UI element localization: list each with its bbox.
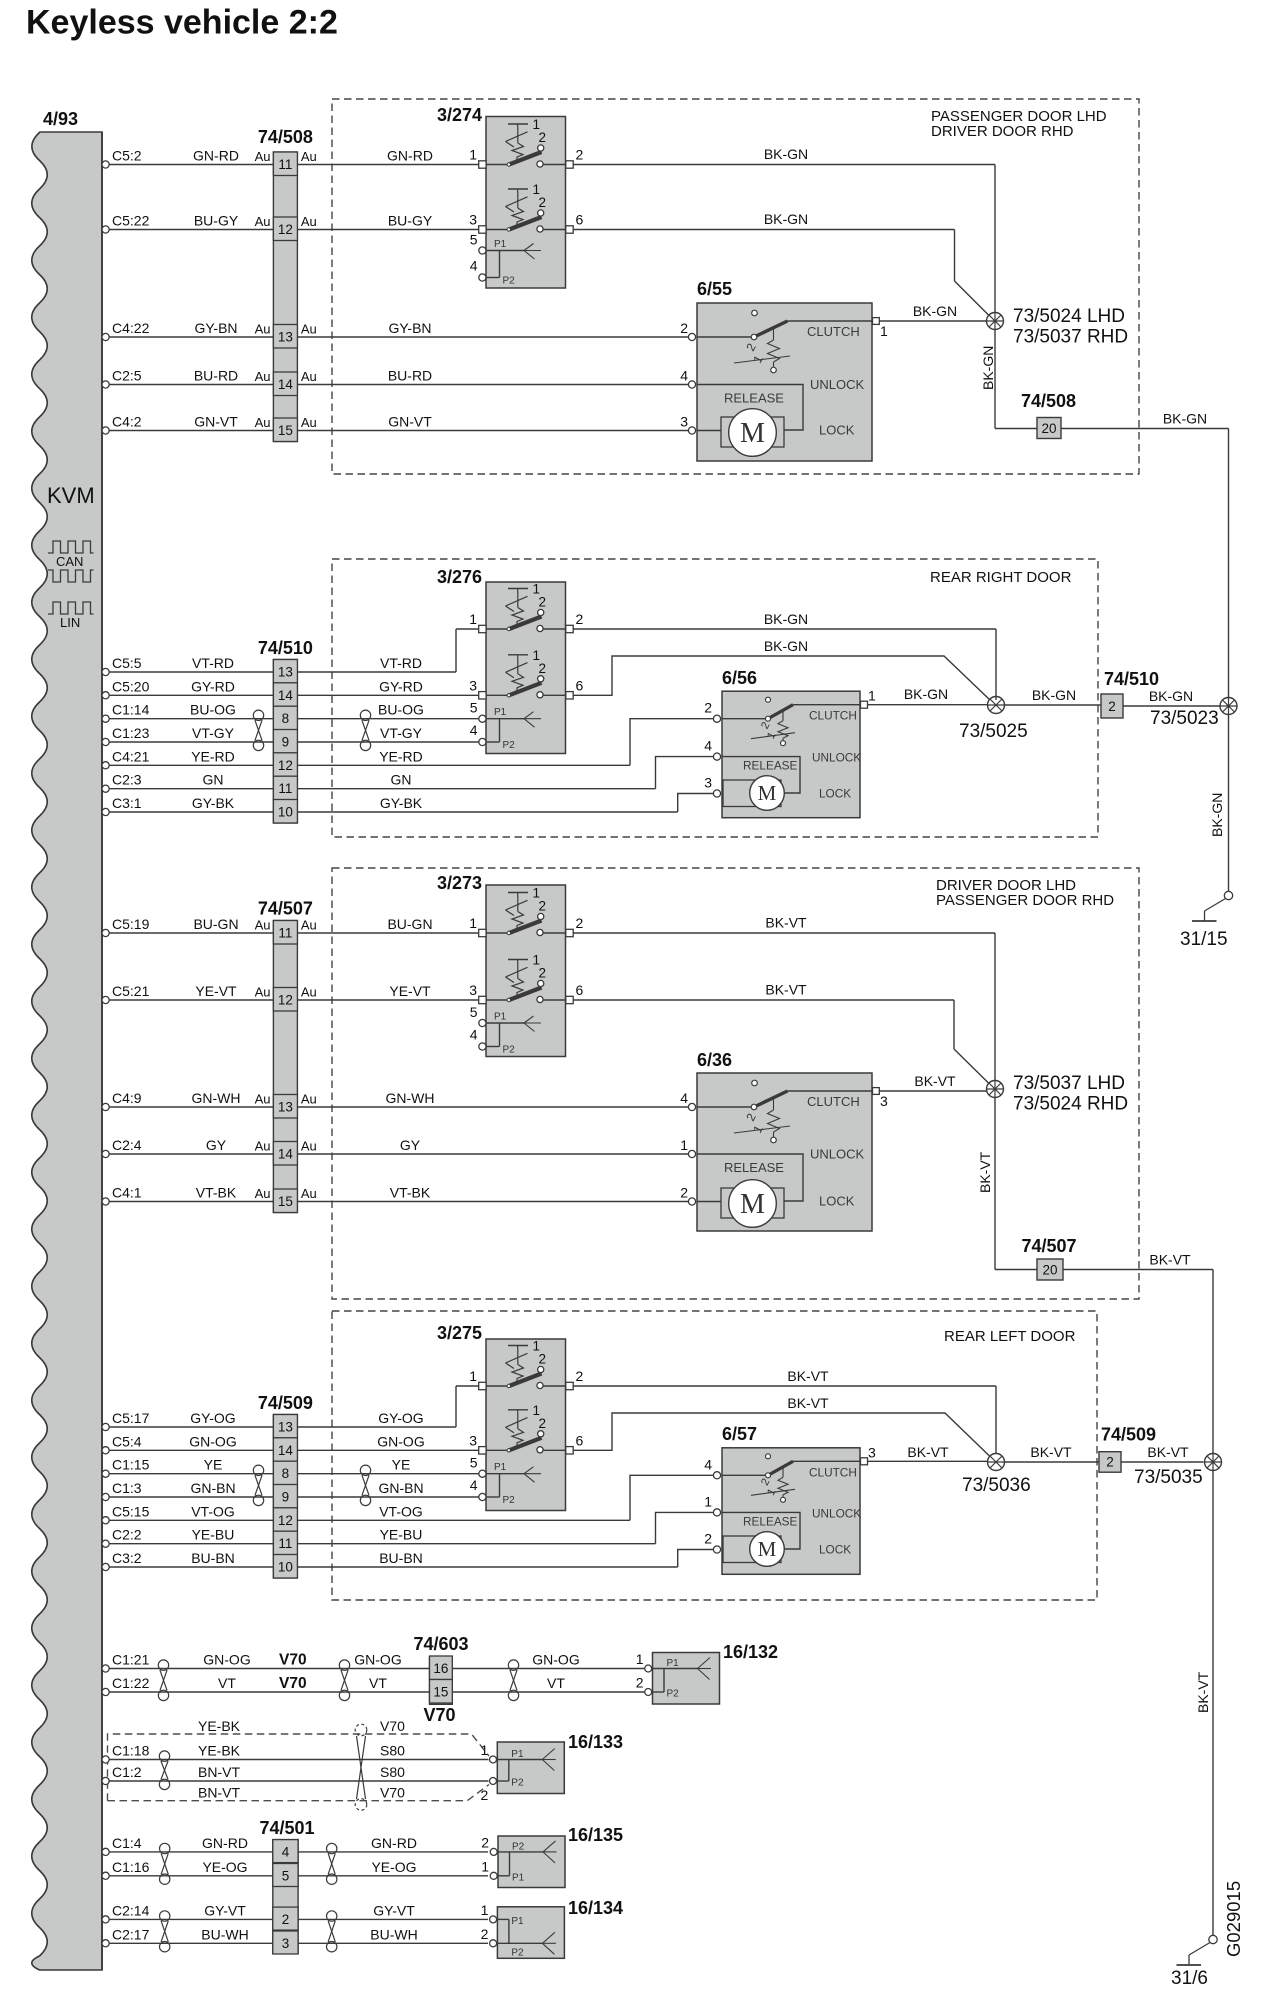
svg-text:UNLOCK: UNLOCK <box>810 377 865 392</box>
svg-text:1: 1 <box>469 915 477 931</box>
svg-text:M: M <box>758 781 777 805</box>
svg-text:GY-BN: GY-BN <box>194 320 237 336</box>
svg-text:2: 2 <box>539 195 547 210</box>
svg-text:15: 15 <box>433 1685 448 1700</box>
svg-text:2: 2 <box>539 595 547 610</box>
svg-text:BK-VT: BK-VT <box>765 982 807 998</box>
svg-text:BK-GN: BK-GN <box>764 638 808 654</box>
svg-text:BU-GY: BU-GY <box>194 213 239 229</box>
svg-text:VT-OG: VT-OG <box>379 1503 423 1519</box>
svg-text:Au: Au <box>255 214 271 229</box>
svg-text:13: 13 <box>278 1100 293 1115</box>
svg-text:74/509: 74/509 <box>1101 1425 1156 1445</box>
svg-text:2: 2 <box>481 1926 489 1942</box>
svg-text:BK-GN: BK-GN <box>1163 411 1207 427</box>
svg-text:YE-VT: YE-VT <box>195 983 237 999</box>
svg-text:C4:9: C4:9 <box>112 1090 142 1106</box>
svg-text:4: 4 <box>704 738 712 754</box>
svg-text:31/15: 31/15 <box>1180 929 1228 950</box>
svg-text:YE: YE <box>204 1457 223 1473</box>
svg-text:6/57: 6/57 <box>722 1424 757 1444</box>
svg-text:G029015: G029015 <box>1223 1881 1244 1957</box>
svg-text:V70: V70 <box>279 1652 307 1669</box>
svg-text:P1: P1 <box>667 1658 680 1669</box>
svg-text:6/56: 6/56 <box>722 668 757 688</box>
svg-text:GY: GY <box>400 1137 421 1153</box>
svg-text:GN-VT: GN-VT <box>194 414 238 430</box>
svg-text:P2: P2 <box>511 1948 524 1959</box>
svg-text:S80: S80 <box>380 1743 405 1759</box>
svg-text:3/273: 3/273 <box>437 873 482 893</box>
svg-text:C3:2: C3:2 <box>112 1550 142 1566</box>
svg-text:VT: VT <box>218 1675 236 1691</box>
svg-text:P2: P2 <box>503 276 516 287</box>
svg-text:5: 5 <box>470 700 478 716</box>
svg-text:GN-BN: GN-BN <box>378 1480 423 1496</box>
svg-text:5: 5 <box>470 1455 478 1471</box>
svg-text:YE: YE <box>392 1457 411 1473</box>
svg-text:3: 3 <box>282 1936 290 1951</box>
svg-text:C1:16: C1:16 <box>112 1859 150 1875</box>
svg-text:2: 2 <box>1106 1455 1114 1470</box>
svg-text:CLUTCH: CLUTCH <box>807 324 860 339</box>
svg-text:4: 4 <box>470 1027 478 1043</box>
svg-text:CLUTCH: CLUTCH <box>809 1465 857 1479</box>
svg-text:GY-VT: GY-VT <box>204 1902 246 1918</box>
svg-text:C5:4: C5:4 <box>112 1433 142 1449</box>
svg-text:M: M <box>758 1537 777 1561</box>
svg-text:C4:22: C4:22 <box>112 320 150 336</box>
svg-text:CLUTCH: CLUTCH <box>809 709 857 723</box>
svg-text:3: 3 <box>469 212 477 228</box>
svg-text:14: 14 <box>278 1443 294 1458</box>
svg-text:GY-OG: GY-OG <box>378 1410 423 1426</box>
svg-text:Au: Au <box>301 1139 317 1154</box>
svg-text:GY-BK: GY-BK <box>380 795 423 811</box>
svg-text:BK-GN: BK-GN <box>1032 687 1076 703</box>
svg-text:Keyless vehicle 2:2: Keyless vehicle 2:2 <box>26 4 338 42</box>
svg-text:73/5037 RHD: 73/5037 RHD <box>1013 327 1128 348</box>
svg-text:4: 4 <box>470 1477 478 1493</box>
svg-text:VT: VT <box>547 1675 565 1691</box>
svg-text:GN-WH: GN-WH <box>192 1090 241 1106</box>
svg-text:C1:14: C1:14 <box>112 702 150 718</box>
svg-text:V70: V70 <box>423 1705 455 1725</box>
svg-text:YE-OG: YE-OG <box>371 1859 416 1875</box>
svg-text:C1:22: C1:22 <box>112 1675 150 1691</box>
svg-text:LOCK: LOCK <box>819 423 855 438</box>
svg-text:YE-BK: YE-BK <box>198 1718 241 1734</box>
svg-text:BU-BN: BU-BN <box>191 1550 235 1566</box>
svg-text:M: M <box>740 418 765 449</box>
svg-text:C1:21: C1:21 <box>112 1652 150 1668</box>
svg-text:Au: Au <box>255 322 271 337</box>
svg-text:2: 2 <box>539 1352 547 1367</box>
svg-text:BU-WH: BU-WH <box>370 1926 417 1942</box>
svg-text:2: 2 <box>680 320 688 336</box>
svg-text:1: 1 <box>469 1368 477 1384</box>
svg-text:11: 11 <box>278 781 292 796</box>
svg-text:GY: GY <box>206 1137 227 1153</box>
svg-text:2: 2 <box>704 1531 712 1547</box>
svg-text:1: 1 <box>868 688 876 704</box>
svg-text:V70: V70 <box>279 1675 307 1692</box>
svg-text:4: 4 <box>680 1090 688 1106</box>
svg-text:VT-GY: VT-GY <box>380 725 423 741</box>
svg-text:16/135: 16/135 <box>568 1825 623 1845</box>
svg-text:VT-BK: VT-BK <box>390 1185 431 1201</box>
svg-text:LOCK: LOCK <box>819 1543 851 1557</box>
svg-text:BK-VT: BK-VT <box>914 1073 956 1089</box>
svg-text:11: 11 <box>278 1536 292 1551</box>
svg-text:Au: Au <box>255 1186 271 1201</box>
svg-text:11: 11 <box>278 926 292 941</box>
svg-text:16/134: 16/134 <box>568 1898 623 1918</box>
svg-text:74/603: 74/603 <box>413 1634 468 1654</box>
svg-text:C2:3: C2:3 <box>112 772 142 788</box>
svg-text:73/5025: 73/5025 <box>959 721 1028 742</box>
svg-text:12: 12 <box>278 1513 293 1528</box>
svg-text:C5:2: C5:2 <box>112 148 142 164</box>
svg-text:4: 4 <box>704 1456 712 1472</box>
svg-text:Au: Au <box>301 369 317 384</box>
svg-text:CAN: CAN <box>56 554 83 569</box>
svg-text:74/501: 74/501 <box>259 1818 314 1838</box>
svg-text:C1:15: C1:15 <box>112 1457 150 1473</box>
svg-text:2: 2 <box>1108 699 1116 714</box>
svg-text:4: 4 <box>282 1844 290 1859</box>
svg-text:16/133: 16/133 <box>568 1732 623 1752</box>
svg-text:BK-VT: BK-VT <box>1030 1444 1072 1460</box>
svg-text:RELEASE: RELEASE <box>724 1160 784 1175</box>
svg-text:5: 5 <box>470 1004 478 1020</box>
svg-text:YE-RD: YE-RD <box>191 748 235 764</box>
svg-text:YE-RD: YE-RD <box>379 748 423 764</box>
svg-text:GN-BN: GN-BN <box>190 1480 235 1496</box>
svg-text:6: 6 <box>576 677 584 693</box>
svg-text:LOCK: LOCK <box>819 787 851 801</box>
svg-text:2: 2 <box>539 966 547 981</box>
svg-text:3: 3 <box>680 414 688 430</box>
svg-text:16: 16 <box>433 1661 448 1676</box>
svg-text:2: 2 <box>539 661 547 676</box>
svg-text:BK-VT: BK-VT <box>765 915 807 931</box>
svg-text:14: 14 <box>278 688 294 703</box>
svg-text:13: 13 <box>278 665 293 680</box>
svg-text:Au: Au <box>255 985 271 1000</box>
svg-text:C5:5: C5:5 <box>112 655 142 671</box>
svg-text:Au: Au <box>255 369 271 384</box>
svg-text:BK-GN: BK-GN <box>1209 793 1225 837</box>
svg-text:3/275: 3/275 <box>437 1323 482 1343</box>
svg-text:P1: P1 <box>494 1462 507 1473</box>
svg-text:73/5037 LHD: 73/5037 LHD <box>1013 1073 1125 1094</box>
svg-text:1: 1 <box>469 147 477 163</box>
svg-text:3: 3 <box>469 1432 477 1448</box>
svg-text:2: 2 <box>539 899 547 914</box>
svg-text:BU-BN: BU-BN <box>379 1550 423 1566</box>
svg-text:GN-RD: GN-RD <box>387 148 433 164</box>
svg-text:3: 3 <box>469 677 477 693</box>
svg-text:C2:4: C2:4 <box>112 1137 142 1153</box>
svg-text:P2: P2 <box>667 1689 680 1700</box>
svg-text:4: 4 <box>680 368 688 384</box>
svg-text:C5:21: C5:21 <box>112 983 150 999</box>
svg-text:6: 6 <box>576 982 584 998</box>
svg-text:1: 1 <box>680 1137 688 1153</box>
svg-text:Au: Au <box>255 149 271 164</box>
svg-text:BK-VT: BK-VT <box>977 1151 993 1193</box>
svg-text:BK-GN: BK-GN <box>764 611 808 627</box>
svg-text:15: 15 <box>278 423 293 438</box>
svg-text:6/36: 6/36 <box>697 1050 732 1070</box>
svg-text:9: 9 <box>282 735 290 750</box>
svg-text:P1: P1 <box>512 1872 525 1883</box>
svg-text:20: 20 <box>1042 1263 1057 1278</box>
svg-text:GN: GN <box>203 772 224 788</box>
svg-text:LIN: LIN <box>60 615 80 630</box>
svg-text:BN-VT: BN-VT <box>198 1785 240 1801</box>
svg-text:BU-GN: BU-GN <box>193 916 238 932</box>
svg-text:Au: Au <box>301 1092 317 1107</box>
svg-text:VT-OG: VT-OG <box>191 1503 235 1519</box>
svg-text:C1:4: C1:4 <box>112 1835 142 1851</box>
svg-text:3/276: 3/276 <box>437 567 482 587</box>
svg-text:GN-RD: GN-RD <box>193 148 239 164</box>
svg-text:1: 1 <box>636 1651 644 1667</box>
svg-text:VT-BK: VT-BK <box>196 1185 237 1201</box>
svg-text:4: 4 <box>470 722 478 738</box>
svg-text:2: 2 <box>282 1912 290 1927</box>
svg-text:6: 6 <box>576 1432 584 1448</box>
svg-text:BK-GN: BK-GN <box>764 211 808 227</box>
svg-text:2: 2 <box>576 915 584 931</box>
svg-text:YE-OG: YE-OG <box>202 1859 247 1875</box>
svg-text:GN-OG: GN-OG <box>354 1652 401 1668</box>
svg-text:10: 10 <box>278 805 293 820</box>
svg-text:BN-VT: BN-VT <box>198 1764 240 1780</box>
svg-text:GN-RD: GN-RD <box>371 1835 417 1851</box>
svg-text:YE-BU: YE-BU <box>380 1527 423 1543</box>
svg-text:C2:14: C2:14 <box>112 1902 150 1918</box>
svg-text:10: 10 <box>278 1560 293 1575</box>
svg-text:C4:1: C4:1 <box>112 1185 142 1201</box>
svg-text:73/5036: 73/5036 <box>962 1475 1031 1496</box>
svg-text:2: 2 <box>539 1416 547 1431</box>
svg-text:LOCK: LOCK <box>819 1194 855 1209</box>
svg-text:15: 15 <box>278 1194 293 1209</box>
svg-text:P2: P2 <box>503 740 516 751</box>
svg-text:73/5035: 73/5035 <box>1134 1467 1203 1488</box>
svg-text:2: 2 <box>539 130 547 145</box>
svg-text:BU-GY: BU-GY <box>388 213 433 229</box>
svg-text:8: 8 <box>282 1466 290 1481</box>
svg-text:12: 12 <box>278 993 293 1008</box>
svg-text:RELEASE: RELEASE <box>724 391 784 406</box>
svg-text:BU-RD: BU-RD <box>388 368 432 384</box>
svg-text:2: 2 <box>704 700 712 716</box>
svg-text:2: 2 <box>576 611 584 627</box>
svg-text:REAR RIGHT DOOR: REAR RIGHT DOOR <box>930 569 1072 586</box>
svg-text:UNLOCK: UNLOCK <box>812 1506 861 1520</box>
svg-text:BU-WH: BU-WH <box>201 1926 248 1942</box>
svg-text:C5:20: C5:20 <box>112 678 150 694</box>
svg-text:C1:23: C1:23 <box>112 725 150 741</box>
svg-text:C4:2: C4:2 <box>112 414 142 430</box>
svg-text:2: 2 <box>576 147 584 163</box>
svg-text:P1: P1 <box>511 1916 524 1927</box>
svg-text:6/55: 6/55 <box>697 279 732 299</box>
svg-text:13: 13 <box>278 330 293 345</box>
svg-text:YE-BK: YE-BK <box>198 1743 241 1759</box>
svg-text:13: 13 <box>278 1420 293 1435</box>
svg-text:P1: P1 <box>494 1012 507 1023</box>
svg-text:74/508: 74/508 <box>1021 391 1076 411</box>
svg-text:GN-OG: GN-OG <box>189 1433 236 1449</box>
svg-text:BU-RD: BU-RD <box>194 368 238 384</box>
svg-text:BK-VT: BK-VT <box>787 1395 829 1411</box>
svg-text:Au: Au <box>255 415 271 430</box>
svg-text:Au: Au <box>255 1139 271 1154</box>
svg-text:GY-RD: GY-RD <box>379 678 423 694</box>
svg-text:Au: Au <box>255 1092 271 1107</box>
svg-text:P2: P2 <box>511 1778 524 1789</box>
svg-text:GN: GN <box>391 772 412 788</box>
svg-text:1: 1 <box>880 323 888 339</box>
svg-text:M: M <box>740 1189 765 1220</box>
svg-text:Au: Au <box>301 415 317 430</box>
svg-text:C1:2: C1:2 <box>112 1764 142 1780</box>
svg-text:Au: Au <box>301 985 317 1000</box>
svg-text:VT-GY: VT-GY <box>192 725 235 741</box>
svg-text:P2: P2 <box>503 1045 516 1056</box>
svg-text:P2: P2 <box>503 1495 516 1506</box>
svg-text:C4:21: C4:21 <box>112 748 150 764</box>
svg-text:VT-RD: VT-RD <box>380 655 422 671</box>
svg-text:DRIVER DOOR RHD: DRIVER DOOR RHD <box>931 123 1074 140</box>
svg-text:74/510: 74/510 <box>258 638 313 658</box>
svg-text:12: 12 <box>278 222 293 237</box>
svg-text:PASSENGER DOOR RHD: PASSENGER DOOR RHD <box>936 892 1114 909</box>
svg-text:BK-GN: BK-GN <box>980 346 996 390</box>
svg-text:VT-RD: VT-RD <box>192 655 234 671</box>
svg-text:C3:1: C3:1 <box>112 795 142 811</box>
svg-text:UNLOCK: UNLOCK <box>810 1147 865 1162</box>
svg-text:GY-RD: GY-RD <box>191 678 235 694</box>
svg-text:P1: P1 <box>494 707 507 718</box>
svg-text:GN-RD: GN-RD <box>202 1835 248 1851</box>
svg-text:BK-GN: BK-GN <box>913 303 957 319</box>
svg-text:C1:3: C1:3 <box>112 1480 142 1496</box>
svg-text:2: 2 <box>481 1834 489 1850</box>
svg-text:Au: Au <box>301 149 317 164</box>
svg-text:GN-WH: GN-WH <box>386 1090 435 1106</box>
svg-text:16/132: 16/132 <box>723 1642 778 1662</box>
svg-text:74/507: 74/507 <box>258 899 313 919</box>
svg-text:74/509: 74/509 <box>258 1393 313 1413</box>
svg-text:74/507: 74/507 <box>1021 1236 1076 1256</box>
svg-text:73/5024 LHD: 73/5024 LHD <box>1013 306 1125 327</box>
svg-text:BU-GN: BU-GN <box>387 916 432 932</box>
svg-text:14: 14 <box>278 1147 294 1162</box>
svg-text:V70: V70 <box>380 1718 405 1734</box>
svg-text:1: 1 <box>481 1858 489 1874</box>
svg-text:BK-GN: BK-GN <box>904 686 948 702</box>
svg-text:Au: Au <box>301 918 317 933</box>
svg-text:GN-OG: GN-OG <box>532 1652 579 1668</box>
svg-text:4/93: 4/93 <box>43 109 78 129</box>
svg-text:BK-VT: BK-VT <box>1147 1444 1189 1460</box>
svg-text:5: 5 <box>282 1868 290 1883</box>
svg-text:GY-BN: GY-BN <box>388 320 431 336</box>
svg-text:5: 5 <box>470 232 478 248</box>
svg-text:14: 14 <box>278 377 294 392</box>
svg-text:VT: VT <box>369 1675 387 1691</box>
svg-text:8: 8 <box>282 711 290 726</box>
svg-text:74/508: 74/508 <box>258 127 313 147</box>
svg-text:3: 3 <box>704 775 712 791</box>
svg-text:YE-BU: YE-BU <box>192 1527 235 1543</box>
svg-text:GY-OG: GY-OG <box>190 1410 235 1426</box>
svg-text:GY-BK: GY-BK <box>192 795 235 811</box>
svg-text:UNLOCK: UNLOCK <box>812 751 861 765</box>
svg-text:V70: V70 <box>380 1785 405 1801</box>
svg-text:KVM: KVM <box>47 483 95 508</box>
svg-text:1: 1 <box>704 1493 712 1509</box>
svg-text:2: 2 <box>680 1185 688 1201</box>
svg-text:3: 3 <box>880 1093 888 1109</box>
svg-text:9: 9 <box>282 1490 290 1505</box>
svg-text:RELEASE: RELEASE <box>743 1514 798 1528</box>
svg-text:P2: P2 <box>512 1841 525 1852</box>
svg-text:C1:18: C1:18 <box>112 1743 150 1759</box>
svg-text:GN-OG: GN-OG <box>377 1433 424 1449</box>
svg-text:C5:22: C5:22 <box>112 213 150 229</box>
svg-text:BK-VT: BK-VT <box>787 1368 829 1384</box>
svg-text:Au: Au <box>301 1186 317 1201</box>
svg-text:C2:2: C2:2 <box>112 1527 142 1543</box>
svg-text:2: 2 <box>576 1368 584 1384</box>
svg-text:P1: P1 <box>511 1749 524 1760</box>
svg-text:C2:5: C2:5 <box>112 368 142 384</box>
svg-text:1: 1 <box>481 1742 489 1758</box>
svg-text:GN-VT: GN-VT <box>388 414 432 430</box>
svg-text:BK-VT: BK-VT <box>1195 1671 1211 1713</box>
svg-text:BK-GN: BK-GN <box>764 146 808 162</box>
svg-text:12: 12 <box>278 758 293 773</box>
svg-text:BK-VT: BK-VT <box>907 1444 949 1460</box>
svg-text:2: 2 <box>636 1675 644 1691</box>
svg-text:P1: P1 <box>494 239 507 250</box>
svg-text:2: 2 <box>481 1787 489 1803</box>
svg-text:C2:17: C2:17 <box>112 1926 150 1942</box>
svg-text:3: 3 <box>469 982 477 998</box>
svg-text:11: 11 <box>278 157 292 172</box>
svg-text:74/510: 74/510 <box>1104 669 1159 689</box>
svg-text:73/5023: 73/5023 <box>1150 708 1219 729</box>
svg-text:4: 4 <box>470 258 478 274</box>
svg-text:C5:17: C5:17 <box>112 1410 150 1426</box>
svg-text:73/5024 RHD: 73/5024 RHD <box>1013 1094 1128 1115</box>
svg-text:S80: S80 <box>380 1764 405 1780</box>
svg-text:C5:15: C5:15 <box>112 1503 150 1519</box>
svg-text:3/274: 3/274 <box>437 105 482 125</box>
svg-text:BK-VT: BK-VT <box>1149 1252 1191 1268</box>
svg-text:GN-OG: GN-OG <box>203 1652 250 1668</box>
svg-text:Au: Au <box>301 322 317 337</box>
svg-text:BK-GN: BK-GN <box>1149 688 1193 704</box>
svg-text:REAR LEFT DOOR: REAR LEFT DOOR <box>944 1328 1076 1345</box>
